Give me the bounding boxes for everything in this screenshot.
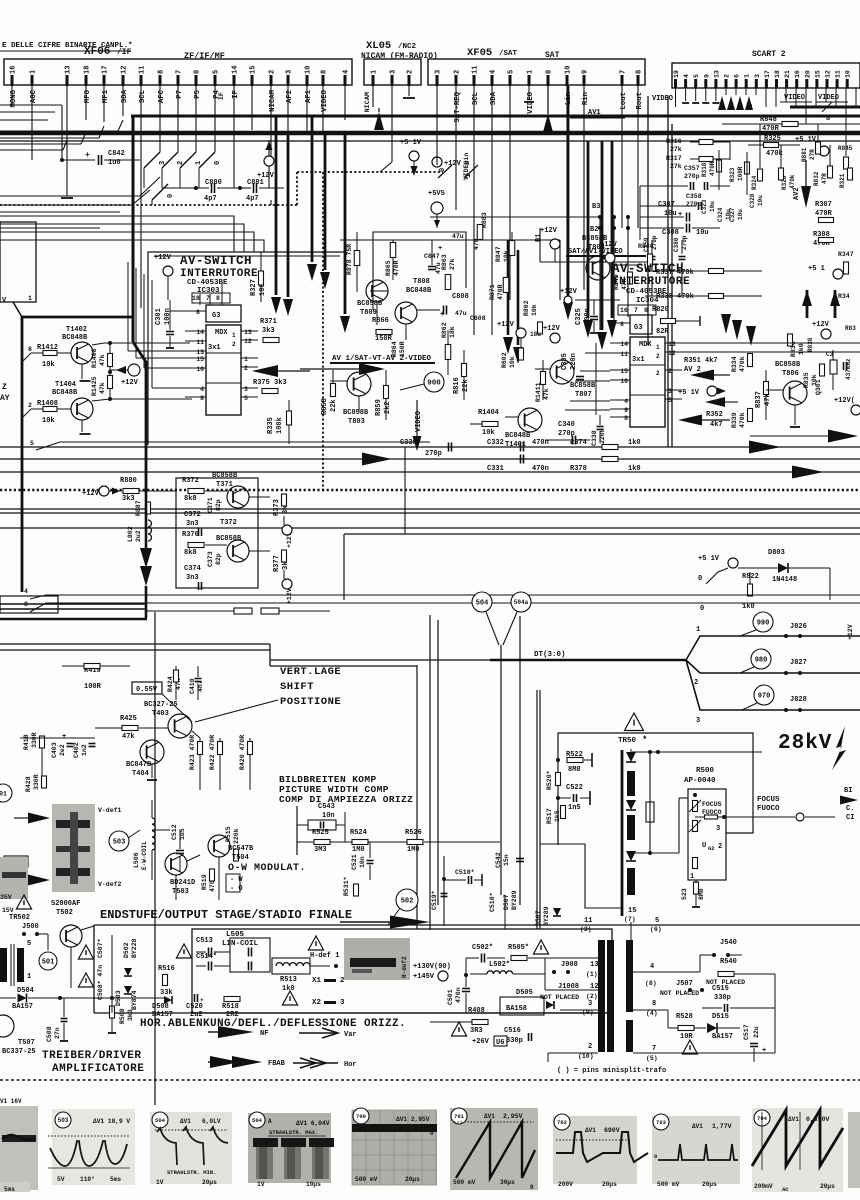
capacitor C372 3n3 (184, 511, 202, 536)
svg-text:2: 2 (694, 679, 698, 687)
svg-text:+12V: +12V (497, 321, 515, 329)
inductor L802 2u2 (127, 520, 152, 542)
svg-text:SHIFT: SHIFT (280, 681, 314, 693)
pointer line vert lage (195, 700, 278, 722)
right vertical x775 (774, 974, 776, 1053)
svg-text:8: 8 (216, 295, 220, 302)
svg-text:470R: 470R (815, 210, 833, 218)
label +130V(90) (413, 963, 451, 971)
svg-text:ΔV1: ΔV1 (484, 1113, 495, 1120)
svg-text:R423 470R: R423 470R (189, 735, 196, 770)
svg-text:BC337-25: BC337-25 (2, 1048, 36, 1056)
svg-text:IF: IF (232, 90, 240, 99)
connector SCART2 pin 9 (703, 74, 710, 88)
svg-text:13: 13 (713, 70, 720, 78)
svg-text:20µs: 20µs (602, 1181, 617, 1188)
label R500 AP-0040 (684, 767, 716, 785)
svg-text:R378: R378 (570, 465, 587, 473)
svg-text:R339: R339 (731, 412, 738, 428)
svg-text:+: + (678, 211, 682, 219)
svg-text:T403: T403 (152, 710, 169, 718)
svg-text:504: 504 (252, 1117, 263, 1124)
svg-text:R524: R524 (350, 829, 367, 837)
svg-text:Rin: Rin (582, 92, 590, 105)
label FOCUS FUOCO outer (745, 796, 835, 821)
svg-text:R318: R318 (701, 162, 708, 177)
svg-text:47k: 47k (99, 354, 106, 366)
connector SCART2 pin 5 (693, 74, 700, 88)
svg-text:BC858B: BC858B (343, 409, 369, 417)
svg-text:R862: R862 (441, 322, 448, 338)
transistor T503 (165, 853, 195, 896)
label 8 corner (826, 115, 830, 123)
svg-text:17: 17 (102, 66, 110, 74)
oscillogram 701 (450, 1108, 538, 1191)
svg-text:1: 1 (690, 873, 694, 881)
svg-text:( ) = pins minisplit-trafo: ( ) = pins minisplit-trafo (557, 1067, 666, 1075)
IC303 left pins (185, 329, 206, 402)
label 28kV (778, 732, 832, 755)
svg-text:2: 2 (718, 843, 722, 851)
+12V rot right edge (847, 624, 854, 640)
svg-text:T503: T503 (172, 888, 189, 896)
svg-text:XL05: XL05 (366, 40, 391, 52)
svg-text:C335: C335 (561, 353, 569, 370)
wire top left 1 (0, 104, 62, 106)
svg-text:2: 2 (407, 70, 415, 74)
svg-text:C.: C. (846, 805, 854, 813)
pot 2 UG2 (689, 820, 701, 832)
svg-text:5: 5 (30, 440, 34, 447)
svg-text:13: 13 (668, 341, 676, 348)
vertical bus x600 (599, 217, 601, 330)
svg-text:H-def 1: H-def 1 (310, 952, 339, 960)
svg-text:C308: C308 (662, 229, 679, 237)
svg-text:(4): (4) (646, 1010, 658, 1017)
svg-text:7: 7 (206, 295, 210, 302)
warning tri 1 (176, 944, 191, 958)
svg-text:R531*: R531* (343, 876, 350, 896)
node 990 (740, 612, 773, 636)
svg-text:XF05: XF05 (467, 47, 492, 59)
connector SCART2 pin 21 (784, 70, 791, 88)
svg-text:1k0: 1k0 (628, 465, 641, 473)
photo V-def (52, 804, 95, 892)
capacitor C518* (444, 869, 482, 886)
transformer pin 8b (645, 980, 657, 987)
svg-text:D502: D502 (123, 942, 130, 958)
svg-text:AV1: AV1 (588, 109, 601, 117)
svg-text:MDX: MDX (639, 341, 652, 349)
svg-text:BC858B: BC858B (570, 382, 596, 390)
capacitor C517 22u (743, 1024, 766, 1062)
resistor R836 1k0 (788, 334, 806, 357)
svg-text:BI: BI (844, 787, 852, 795)
svg-text:AGC: AGC (30, 89, 38, 103)
svg-text:R372: R372 (182, 477, 199, 485)
svg-text:7: 7 (634, 307, 638, 314)
svg-text:Hor: Hor (344, 1061, 357, 1069)
svg-text:470n: 470n (532, 439, 549, 447)
arrow right bus2 (750, 430, 858, 479)
svg-text:8: 8 (158, 70, 166, 74)
ground pin 13 (61, 86, 73, 198)
capacitor C880 (162, 179, 240, 203)
scart pin ground (692, 88, 699, 103)
svg-text:10k: 10k (509, 356, 516, 368)
resistor R325 470k (748, 135, 800, 158)
ground pin 15 (246, 86, 258, 132)
capacitor C847 47u (424, 240, 442, 274)
svg-text:0: 0 (698, 575, 702, 583)
svg-text:R1408: R1408 (91, 348, 98, 368)
svg-text:CI: CI (846, 814, 854, 822)
svg-text:2: 2 (232, 341, 236, 348)
flyback winding bar 1 (627, 771, 635, 796)
svg-text:15: 15 (196, 356, 204, 363)
capacitor C515 330p (702, 985, 775, 1012)
warning tri 5 (451, 1022, 466, 1036)
flyback winding bar 3 (627, 868, 635, 895)
label SHIFT (280, 681, 314, 693)
svg-text:22u: 22u (753, 1026, 760, 1038)
thick arrow x288 (283, 133, 293, 316)
svg-text:100k: 100k (276, 417, 284, 434)
T808 cluster box (373, 232, 466, 310)
resistor R419 100R (62, 664, 130, 692)
svg-text:R408: R408 (468, 1007, 485, 1015)
label AV-SWITCH 1 (180, 254, 252, 268)
transistor T806 (766, 361, 807, 427)
wires EW row (297, 806, 500, 855)
svg-text:9: 9 (703, 74, 710, 78)
capacitor C331 470n (487, 455, 641, 474)
svg-text:R1411: R1411 (535, 382, 542, 402)
bus y513 (0, 512, 860, 514)
T1404 emitter gnd (80, 420, 91, 434)
label 5 pin (27, 940, 31, 948)
svg-text:10: 10 (565, 66, 573, 74)
switch 0 lower (152, 184, 175, 205)
connector SCART2 pin 11 (835, 70, 842, 88)
svg-text:C519*: C519* (431, 890, 438, 910)
resistor R352 4k7 (678, 411, 730, 429)
svg-text:503: 503 (58, 1117, 69, 1124)
svg-text:1,77V: 1,77V (712, 1123, 732, 1130)
svg-text:10k: 10k (42, 417, 55, 425)
svg-text:8k8: 8k8 (184, 495, 197, 503)
capacitor C512 1u5 (171, 824, 186, 872)
resistor R887 (135, 500, 151, 516)
svg-text:22k: 22k (462, 379, 470, 392)
svg-text:STRAHLSTR. MIN.: STRAHLSTR. MIN. (167, 1169, 217, 1176)
svg-text:R375 3k3: R375 3k3 (253, 379, 287, 387)
svg-text:3k3: 3k3 (262, 327, 275, 335)
connector XF05 pin 7 (620, 70, 629, 110)
resistor R515 220k (225, 826, 240, 861)
+12Vn top (432, 153, 470, 180)
svg-text:AV2: AV2 (793, 187, 801, 200)
focus wire resistor (695, 815, 745, 819)
label CD-4053BE 2 (626, 288, 667, 296)
svg-text:700: 700 (356, 1113, 366, 1120)
capacitor C608 (470, 315, 486, 322)
svg-text:T404: T404 (132, 770, 149, 778)
svg-text:P7: P7 (176, 90, 184, 99)
svg-text:12: 12 (668, 350, 676, 357)
svg-text:2,95V: 2,95V (503, 1113, 523, 1120)
jumper J500 (22, 923, 48, 950)
thick arrow x276 (271, 117, 281, 314)
svg-text:BC547B: BC547B (228, 845, 254, 853)
svg-text:U6: U6 (496, 1039, 504, 1047)
resistor R317 27k (666, 155, 730, 170)
resistor R327 100k (250, 252, 267, 302)
svg-text:C340: C340 (558, 421, 575, 429)
resistor R883 (473, 212, 488, 250)
flyback diode D3 (626, 851, 636, 861)
node 901 (0, 784, 12, 802)
svg-text:R865: R865 (385, 260, 392, 276)
capacitor C519* (431, 890, 448, 910)
svg-text:15: 15 (814, 70, 821, 78)
flyback diode D1 (626, 749, 636, 762)
connector XF05 pin 8 (636, 70, 645, 110)
legend Var (299, 1028, 357, 1039)
connector XF06 pin 5 (213, 70, 222, 99)
wire B2 row (430, 239, 560, 241)
connector label XF06/IF (84, 46, 132, 58)
connector XF05 pin 9 (582, 70, 591, 105)
IC304 main box (630, 337, 665, 427)
title ENDSTUFE (100, 908, 352, 922)
thick arrow L802 b (0, 566, 152, 619)
label POSITIONE (280, 696, 341, 708)
warning tri 4 (533, 940, 548, 954)
svg-text:2: 2 (668, 368, 672, 375)
label O-W MODULAT (228, 863, 306, 874)
resistor R324 (751, 169, 763, 190)
svg-text:+5 1V: +5 1V (698, 555, 720, 563)
svg-text:15: 15 (250, 66, 258, 74)
svg-text:20µs: 20µs (405, 1176, 420, 1183)
svg-text:R334: R334 (731, 356, 738, 372)
thick arrow x835 (830, 290, 840, 318)
transistor T1402 (62, 326, 190, 364)
svg-text:501: 501 (42, 959, 55, 967)
svg-text:7: 7 (652, 1045, 656, 1053)
svg-text:D803: D803 (768, 549, 785, 557)
svg-text:L502*: L502* (489, 961, 510, 969)
svg-text:Rout: Rout (636, 92, 644, 110)
svg-text:+12V: +12V (600, 241, 618, 249)
node 501 (39, 952, 57, 970)
svg-text:5: 5 (668, 397, 672, 404)
capacitor C328 10u (749, 193, 764, 208)
vertical x560 drop (559, 240, 561, 300)
resistor R334 470k (731, 354, 753, 373)
svg-text:47k: 47k (122, 733, 135, 741)
svg-text:100n: 100n (164, 308, 172, 325)
resistor R425 47k (95, 715, 168, 741)
capacitor C373 82p (207, 551, 222, 567)
svg-text:270p: 270p (425, 450, 442, 458)
svg-text:+: + (440, 311, 444, 319)
svg-text:R321: R321 (839, 173, 846, 188)
svg-text:AV-SWITCH: AV-SWITCH (180, 254, 252, 268)
vertical x540 drop (539, 228, 541, 262)
svg-text:SCL: SCL (139, 90, 147, 103)
svg-text:702: 702 (557, 1119, 567, 1126)
node 503 circle (109, 830, 140, 851)
svg-text:4p7: 4p7 (246, 195, 259, 203)
svg-text:C307: C307 (658, 201, 675, 209)
connector XF06 pin 10 (305, 66, 314, 104)
svg-text:270p: 270p (686, 201, 702, 208)
wires scart cluster (640, 124, 846, 254)
resistor R424 47k (167, 666, 182, 700)
svg-text:+145V: +145V (413, 973, 435, 981)
capacitor C881 (238, 179, 284, 203)
resistor R347 (838, 251, 854, 274)
svg-text:HOR.ABLENKUNG/DEFL./DEFLESSION: HOR.ABLENKUNG/DEFL./DEFLESSIONE ORIZZ. (140, 1018, 406, 1030)
svg-text:- W: - W (230, 876, 243, 884)
dashed bus top (0, 172, 443, 490)
connector SCART2 pin 19 (673, 70, 680, 88)
IC303 inner lines (206, 353, 241, 383)
svg-text:0.55V: 0.55V (136, 686, 158, 694)
resistor R864 150R (391, 341, 406, 357)
resistor R859 2k2 (375, 370, 392, 420)
svg-text:R425: R425 (120, 715, 137, 723)
svg-text:1V: 1V (257, 1181, 265, 1188)
jumper J1008 12 (540, 983, 598, 1001)
svg-text:11: 11 (584, 917, 592, 925)
svg-text:J828: J828 (790, 696, 807, 704)
connector XF06 pin 18 (84, 66, 93, 104)
label BILDBREITEN KOMP (279, 774, 377, 785)
svg-text:ΔV1: ΔV1 (180, 1118, 191, 1125)
resistor R328 470k (779, 168, 797, 190)
connector XF05/SAT body (428, 59, 645, 85)
svg-text:AV 1/SAT-VT-AV 2-VIDEO: AV 1/SAT-VT-AV 2-VIDEO (332, 355, 432, 363)
svg-text:C332: C332 (487, 439, 504, 447)
svg-text:10u: 10u (709, 201, 716, 212)
transistor T803 (330, 372, 371, 426)
resistor R505* (508, 944, 545, 961)
label TR50 (618, 735, 647, 745)
left small photo (0, 857, 28, 899)
VIDEO label 3 (816, 94, 848, 112)
IC303 G3 box (206, 305, 241, 322)
svg-text:X1: X1 (312, 977, 322, 985)
AV-SWITCH box 1 (148, 252, 345, 445)
svg-text:C520: C520 (186, 1003, 203, 1011)
IC303 MUX label (208, 329, 228, 352)
svg-text:C542: C542 (495, 852, 502, 868)
svg-text:19: 19 (673, 70, 680, 78)
svg-text:XF06: XF06 (84, 46, 110, 58)
label 4 line (24, 588, 860, 599)
capacitor C502* (464, 944, 505, 977)
svg-text:AV-SWITCH: AV-SWITCH (612, 262, 684, 276)
svg-text:+5 1V: +5 1V (400, 139, 422, 147)
connector XF06 pin 17 (102, 66, 111, 104)
resistor R522 8M8 (556, 751, 592, 774)
capacitor C327 10u (729, 207, 744, 222)
svg-text:12: 12 (121, 66, 129, 74)
svg-text:R373: R373 (273, 499, 281, 516)
flyback winding bar 2 (627, 815, 635, 840)
IC303 pin8 left (170, 309, 206, 316)
svg-text:47u: 47u (452, 233, 464, 240)
svg-text:2: 2 (244, 365, 248, 372)
label AV2 arrow (793, 160, 811, 208)
connector SCART2 pin 20 (804, 70, 811, 88)
resistor R526 1M0 (405, 829, 423, 854)
svg-text:MDX: MDX (215, 329, 228, 337)
svg-text:10: 10 (305, 66, 313, 74)
svg-text:BC327-25: BC327-25 (144, 701, 178, 709)
svg-text:R352: R352 (706, 411, 723, 419)
svg-text:ΔV1: ΔV1 (788, 1116, 799, 1123)
svg-text:10k: 10k (42, 361, 55, 369)
warning triangle TR50 (625, 713, 644, 731)
svg-text:500 mV: 500 mV (453, 1179, 476, 1186)
IC304 top pins (618, 300, 656, 315)
resistor R822 1k0 (742, 572, 759, 611)
wire J row (545, 958, 598, 990)
capacitor C332 470n (487, 439, 641, 452)
connector XF06/IF body (4, 59, 352, 85)
wires T808 cluster (340, 240, 480, 340)
svg-text:4: 4 (200, 386, 204, 393)
svg-text:470n: 470n (532, 465, 549, 473)
scart pin ground (702, 88, 709, 103)
svg-text:B2: B2 (590, 226, 598, 234)
resistor R428 330R (25, 774, 47, 792)
left vertical bus (13, 302, 133, 592)
resistor R371 3k3 (258, 318, 279, 343)
svg-text:200mV: 200mV (754, 1183, 773, 1190)
svg-text:01: 01 (0, 790, 7, 797)
label AV1 (570, 109, 625, 119)
svg-text:470k: 470k (739, 356, 746, 372)
flyback top wire (632, 750, 762, 754)
connector XF05 pin 3 (435, 70, 443, 86)
resistor R858 22k (321, 370, 338, 415)
svg-text:R859: R859 (375, 399, 383, 416)
svg-text:1: 1 (371, 70, 379, 74)
wires left mid band (0, 177, 160, 228)
svg-text:10µs: 10µs (306, 1181, 321, 1188)
svg-text:V1 16V: V1 16V (0, 1098, 22, 1105)
svg-text:502: 502 (401, 898, 414, 906)
wires amp box (176, 491, 270, 551)
wires driver box (112, 952, 192, 966)
arrow NF title (340, 916, 430, 929)
svg-text:27n: 27n (54, 1027, 61, 1039)
long vertical x430 (417, 615, 501, 930)
svg-text:3: 3 (696, 717, 700, 725)
svg-text:FOCUS: FOCUS (702, 801, 722, 808)
svg-text:+12V: +12V (560, 288, 578, 296)
pin 5 extra label IF (218, 92, 226, 100)
svg-text:82R: 82R (656, 328, 669, 336)
IC304 MUX label (632, 341, 652, 364)
capacitor C808 (440, 293, 469, 319)
svg-text:C501: C501 (447, 989, 454, 1005)
